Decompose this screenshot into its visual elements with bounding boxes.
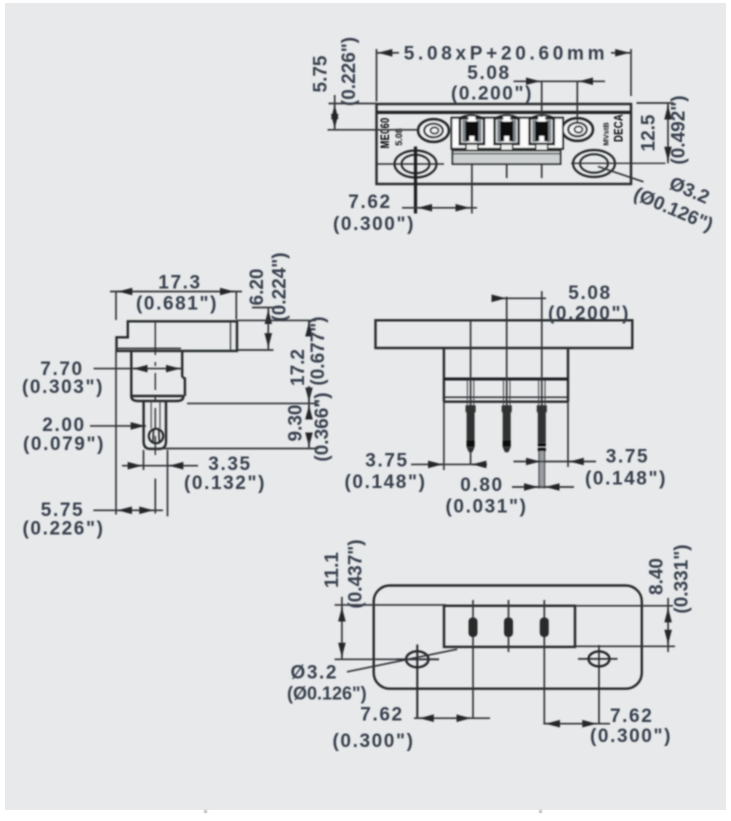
svg-text:DECA: DECA [612,114,626,142]
front body right extension down [567,402,569,467]
svg-text:Ø3.2: Ø3.2 [291,663,339,684]
dim 5.08xP+20.60mm [377,44,632,102]
dim 9.30 (0.366") [146,392,333,461]
svg-text:7.62: 7.62 [348,192,391,213]
front pin2 center line [506,297,508,406]
leader line dia 3.2 bottom [347,649,457,672]
top view inner top edge (thick) [377,111,632,114]
side middle block right step [182,377,185,396]
svg-text:(0.300"): (0.300") [590,726,672,747]
svg-text:(0.200"): (0.200") [548,304,630,325]
svg-text:(0.681"): (0.681") [136,294,218,315]
side housing inner right line [230,321,232,351]
front band lower line [444,396,568,398]
wire clamp bar [453,151,561,165]
dim 5.75 (0.226") bottom left [22,351,163,540]
dim 12.5 (0.492") right [637,95,690,164]
leader line to dia 3.2 label [598,167,644,182]
bottom pin line 2 [508,600,510,652]
dim 7.62 (0.300") bottom right [543,706,672,747]
svg-text:17.2: 17.2 [288,349,309,386]
front flange [376,320,633,348]
dim 0.80 (0.031") [445,475,574,518]
bottom pin 2 [504,618,513,638]
dim 5.08 (0.200") top [451,63,605,105]
bottom pin line 3 [543,600,545,724]
svg-text:(0.300"): (0.300") [332,731,414,752]
svg-text:3.35: 3.35 [208,454,251,475]
dim 17.3 (0.681") [110,273,242,321]
svg-text:(0.200"): (0.200") [451,84,533,105]
svg-text:(0.148"): (0.148") [585,469,667,490]
front body bottom [444,401,568,403]
dim 3.75 (0.148") front left [344,451,487,494]
svg-text:(Ø0.126"): (Ø0.126") [287,684,367,704]
dia 3.2 label bottom [287,663,367,704]
svg-text:(0.437"): (0.437") [346,539,367,608]
bottom right screw hole [578,645,618,724]
svg-text:12.5: 12.5 [639,114,660,151]
bottom left screw hole [397,645,440,719]
front pin side lines in band [467,380,545,405]
front pin3 center line [541,291,543,405]
svg-text:ME060: ME060 [378,117,392,148]
svg-text:(0.132"): (0.132") [184,473,266,494]
front body sides [444,348,568,402]
dim 8.40 (0.331") [575,544,693,652]
front pin 3 (long) [537,405,547,488]
svg-text:5.08: 5.08 [568,283,611,304]
side view center line [154,322,156,455]
dim 2.00 (0.079") [23,415,146,455]
pin 3 extension line up [541,81,543,117]
bottom margin tick marks [204,810,207,813]
svg-text:(0.031"): (0.031") [445,497,527,518]
svg-text:6.20: 6.20 [247,269,268,306]
svg-text:(0.303"): (0.303") [22,377,104,398]
svg-text:(0.226"): (0.226") [22,519,104,540]
side middle block rounded skirt [131,396,183,401]
svg-text:(0.148"): (0.148") [344,472,426,493]
svg-text:(0.226"): (0.226") [339,37,360,106]
dim 7.70 (0.303") [22,359,182,398]
left oval screw hole [418,119,449,141]
svg-text:(0.677"): (0.677") [308,316,329,385]
svg-text:0.80: 0.80 [460,475,503,496]
dim 5.08 (0.200") front [495,283,630,325]
dim 17.2 (0.677") [187,316,329,403]
dim 7.62 (0.300") top view [333,192,477,235]
svg-text:(0.224"): (0.224") [270,252,291,321]
right oval extension line up [576,81,578,122]
dim 7.62 (0.300") bottom left [332,705,490,753]
front pin 1 [466,405,476,465]
svg-text:3.75: 3.75 [606,447,649,468]
svg-text:5.08: 5.08 [467,63,510,84]
svg-text:(0.300"): (0.300") [333,214,415,235]
right big screw [571,150,666,177]
side pin inner bore lines [151,401,160,429]
terminal cell 3 [530,117,554,151]
front band thick line [444,378,568,381]
dia 3.2 label top view (rotated) [630,173,716,236]
svg-text:(0.331"): (0.331") [672,544,693,613]
pin 3 center line below bar [541,164,543,178]
svg-text:8.40: 8.40 [647,558,668,595]
svg-text:(0.366"): (0.366") [312,392,333,461]
svg-text:17.3: 17.3 [158,273,201,294]
dim 3.75 (0.148") front right [514,447,668,490]
side view housing outline [117,321,238,351]
bottom pin 3 [540,618,549,638]
terminal housing block [452,115,564,149]
pin 2 center line below bar [506,164,508,178]
svg-text:7.62: 7.62 [360,705,403,726]
svg-text:MVstB: MVstB [602,122,611,146]
front body left extension down [443,402,445,470]
svg-text:2.00: 2.00 [42,415,85,436]
dim 6.20 (0.224") [237,252,291,350]
svg-text:11.1: 11.1 [322,552,343,588]
side housing step bottom line [117,347,182,349]
dim 5.75 (0.226") top left [311,37,419,130]
front pin1 center line [470,320,472,405]
svg-text:9.30: 9.30 [286,405,307,442]
bottom pin line 1 [472,600,474,718]
svg-text:5.75: 5.75 [311,55,332,92]
side middle block bottom line [131,395,183,397]
terminal cell 2 [495,117,519,151]
dim 3.35 (0.132") [122,450,266,516]
bottom pin 1 [469,618,478,638]
left big screw [377,147,444,214]
front pin 2 [502,405,512,452]
top view body outline [377,104,632,184]
svg-text:5.08xP+20.60mm: 5.08xP+20.60mm [404,44,608,65]
terminal cell 1 [460,117,484,151]
bottom view inner rect [444,606,575,647]
svg-text:(0.492"): (0.492") [669,95,690,164]
bottom view outer body [374,586,642,689]
pin 1 center line below bar [471,164,473,214]
side pin outline [144,401,166,449]
svg-text:3.75: 3.75 [365,451,408,472]
svg-text:7.62: 7.62 [610,706,653,727]
svg-text:(0.079"): (0.079") [23,434,105,455]
right oval screw hole [562,118,593,140]
side middle block [131,351,182,396]
side pin hole [149,429,163,443]
dim 11.1 (0.437") [322,539,446,659]
svg-text:5.08: 5.08 [394,128,404,146]
